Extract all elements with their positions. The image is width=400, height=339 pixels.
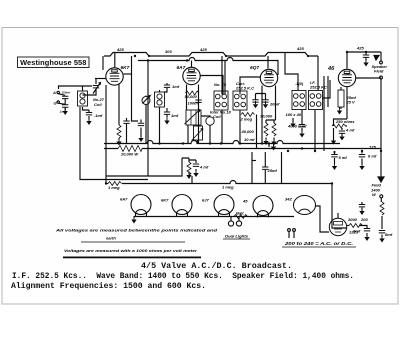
svg-text:Coil: Coil	[94, 102, 102, 107]
svg-text:6K7: 6K7	[161, 198, 169, 203]
svg-text:A: A	[52, 90, 56, 95]
svg-text:Alignment Frequencies: 1500 an: Alignment Frequencies: 1500 and 600 Kcs.	[11, 281, 206, 291]
svg-text:Ball.: Ball.	[236, 211, 244, 216]
svg-text:125: 125	[369, 145, 376, 150]
svg-text:Westinghouse 558: Westinghouse 558	[20, 58, 86, 67]
svg-text:4/5 Valve A.C./D.C. Broadcast.: 4/5 Valve A.C./D.C. Broadcast.	[141, 261, 292, 271]
svg-text:200: 200	[360, 217, 368, 222]
svg-text:303: 303	[165, 49, 172, 54]
svg-text:All voltages are measured betw: All voltages are measured betweenthe poi…	[55, 228, 218, 233]
svg-text:100 x 40: 100 x 40	[286, 112, 302, 117]
svg-text:20,000 W: 20,000 W	[120, 152, 139, 157]
svg-text:6K7: 6K7	[121, 65, 130, 71]
svg-text:100mf: 100mf	[62, 91, 72, 95]
svg-text:10 mf: 10 mf	[244, 137, 255, 142]
svg-text:70,000: 70,000	[260, 114, 273, 119]
svg-text:2 meg: 2 meg	[240, 117, 253, 122]
svg-text:.1mf: .1mf	[94, 113, 103, 118]
svg-text:34Z: 34Z	[285, 197, 292, 202]
svg-text:6A7: 6A7	[120, 197, 128, 202]
svg-text:40,000: 40,000	[241, 129, 255, 134]
svg-text:8mf: 8mf	[385, 232, 393, 237]
svg-text:3000: 3000	[348, 217, 358, 222]
svg-text:1 meg: 1 meg	[108, 185, 120, 190]
svg-text:425: 425	[356, 46, 364, 51]
svg-text:252.5 KC: 252.5 KC	[309, 85, 327, 90]
svg-text:25mf: 25mf	[267, 168, 278, 173]
svg-text:1mf: 1mf	[171, 113, 179, 118]
svg-text:4000 mmf: 4000 mmf	[287, 124, 307, 129]
svg-text:Coil: Coil	[213, 114, 221, 119]
svg-text:45: 45	[242, 199, 248, 204]
svg-text:46: 46	[327, 66, 335, 72]
svg-text:6A7: 6A7	[177, 65, 186, 71]
svg-text:25 V: 25 V	[346, 100, 356, 105]
svg-text:No. 75: No. 75	[214, 82, 227, 87]
svg-text:5 mf: 5 mf	[339, 155, 348, 160]
svg-text:4 mf: 4 mf	[345, 128, 355, 133]
svg-text:8 mf: 8 mf	[368, 154, 377, 159]
svg-text:4 mf: 4 mf	[199, 165, 209, 170]
svg-text:1mf: 1mf	[172, 84, 180, 89]
svg-text:Field: Field	[374, 69, 384, 74]
svg-text:.1mf: .1mf	[59, 110, 66, 114]
svg-text:1 meg: 1 meg	[222, 185, 234, 190]
svg-text:6Q7: 6Q7	[250, 65, 259, 71]
svg-text:G: G	[54, 101, 57, 106]
svg-text:earth: earth	[106, 236, 116, 241]
svg-text:Voltages are measured with a 1: Voltages are measured with a 1000 ohms p…	[64, 248, 198, 253]
svg-text:50,000: 50,000	[185, 94, 198, 99]
svg-text:6J7: 6J7	[202, 198, 209, 203]
svg-text:200 to 240 = A.C. or D.C.: 200 to 240 = A.C. or D.C.	[284, 241, 353, 247]
svg-text:.1(0): .1(0)	[295, 81, 304, 86]
svg-text:20mf: 20mf	[269, 102, 280, 107]
svg-text:252.5 K.C: 252.5 K.C	[235, 86, 254, 91]
svg-text:100mf: 100mf	[188, 101, 200, 106]
svg-text:Dual Lights: Dual Lights	[225, 234, 249, 239]
svg-text:I.F. 252.5 Kcs.. Wave Band: 1: I.F. 252.5 Kcs.. Wave Band: 1400 to 550 …	[12, 271, 354, 281]
svg-text:425: 425	[116, 47, 124, 52]
svg-text:425: 425	[296, 46, 304, 51]
svg-text:8mf: 8mf	[353, 229, 361, 234]
svg-text:425: 425	[199, 47, 207, 52]
svg-text:250 ohms: 250 ohms	[335, 119, 355, 124]
